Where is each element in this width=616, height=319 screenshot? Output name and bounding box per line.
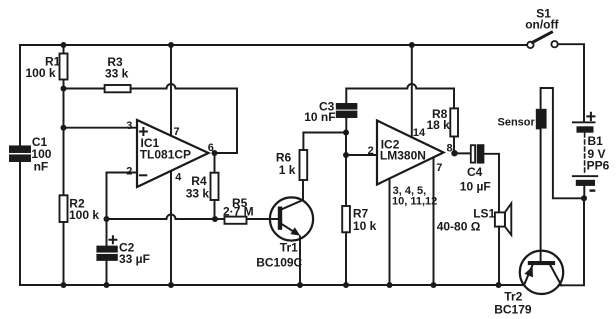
svg-text:33 k: 33 k (105, 67, 129, 81)
wire battery minus to Tr2 collector (559, 198, 584, 285)
wire C2 top lead (106, 219, 108, 247)
capacitor C1 (10, 146, 30, 161)
wire Tr1 collector to R6 (302, 180, 304, 201)
label IC2 ground pins (392, 185, 437, 207)
svg-text:33 k: 33 k (186, 187, 210, 201)
svg-text:2: 2 (126, 165, 132, 177)
svg-text:33 µF: 33 µF (119, 252, 150, 266)
label C1 value (31, 135, 51, 173)
node IC1 output (212, 150, 218, 156)
node R1/R3 junction (61, 86, 67, 92)
svg-text:LS1: LS1 (473, 206, 495, 220)
svg-text:10, 11,12: 10, 11,12 (392, 195, 437, 207)
wire R3 left lead (64, 88, 105, 90)
wire R4 bottom lead (214, 200, 216, 219)
node C3/R6 junction (343, 130, 349, 136)
svg-text:10 k: 10 k (353, 219, 377, 233)
wire R2 bottom lead (63, 222, 65, 285)
capacitor C3 (337, 104, 357, 117)
node pin4 ground (168, 282, 174, 288)
label IC2 (380, 137, 426, 162)
node LS1 ground (496, 282, 502, 288)
label IC1 minus input (140, 174, 146, 176)
wire left edge upper (19, 45, 21, 146)
svg-text:BC109C: BC109C (256, 256, 302, 270)
wire R5 left lead (215, 218, 225, 220)
label Tr2 (494, 289, 532, 316)
resistor R2 (60, 195, 68, 222)
svg-text:4: 4 (175, 171, 182, 183)
svg-text:B1: B1 (588, 134, 604, 148)
svg-text:1 k: 1 k (279, 163, 296, 177)
label C2 plus (109, 236, 116, 243)
node Tr1 emitter ground (297, 282, 303, 288)
label R3 (105, 55, 129, 80)
label Tr1 (256, 240, 302, 269)
resistor R4 (211, 173, 219, 200)
svg-text:18 k: 18 k (427, 118, 451, 132)
wire S1 to battery column (558, 44, 584, 121)
node R2 ground (61, 282, 67, 288)
wire C3 top lead (345, 89, 347, 105)
svg-text:3: 3 (126, 120, 132, 132)
wire Tr1 emitter to ground (299, 237, 301, 286)
resistor R3 (105, 85, 131, 92)
wire top rail (20, 44, 527, 46)
wire R1 top lead (63, 45, 65, 54)
label C3 (304, 99, 335, 124)
node battery minus junction (581, 195, 587, 201)
node C2 ground (104, 282, 110, 288)
node IC1 pin7 top (168, 42, 174, 48)
wire R4 top lead (214, 153, 216, 173)
svg-text:PP6: PP6 (587, 159, 610, 173)
resistor R7 (342, 206, 350, 232)
wire IC2 output to C4 (455, 152, 471, 154)
svg-text:7: 7 (174, 126, 180, 138)
wire IC2 pins 3,4,5,10,11,12 (389, 179, 391, 286)
op-amp IC2 (377, 121, 444, 185)
svg-text:nF: nF (34, 159, 49, 173)
wire feedback from R3 to IC1 output with hop (131, 84, 237, 153)
node C2 top junction (104, 216, 110, 222)
resistor R1 (60, 54, 68, 80)
wire bottom rail (20, 284, 524, 286)
svg-text:TL081CP: TL081CP (140, 148, 191, 162)
wire IC1 pin4 (170, 171, 172, 285)
node R1 top (61, 42, 67, 48)
svg-text:14: 14 (413, 127, 426, 139)
svg-text:C4: C4 (467, 165, 483, 179)
wire C4 to LS1 (483, 154, 499, 213)
svg-text:40-80 Ω: 40-80 Ω (437, 219, 481, 233)
svg-text:LM380N: LM380N (380, 149, 426, 163)
svg-text:100 k: 100 k (26, 66, 56, 80)
svg-text:100 k: 100 k (69, 208, 99, 222)
label LS1 (437, 206, 496, 233)
wire C3 junction down to pin2 node (345, 133, 347, 156)
label IC1 (140, 136, 191, 162)
node R7 ground (343, 282, 349, 288)
resistor R5 (225, 217, 247, 224)
node pins345 ground (387, 282, 393, 288)
switch S1 (527, 32, 558, 48)
label C4 (460, 165, 491, 193)
wire C2 bottom lead (106, 260, 108, 285)
svg-text:10 nF: 10 nF (304, 110, 335, 124)
sensor plates (537, 110, 546, 129)
node IC2 pin14 top (409, 42, 415, 48)
node IC2 pin2 junction (343, 152, 349, 158)
capacitor C2 (97, 247, 116, 260)
node R4/R5 junction (212, 216, 218, 222)
label IC1 plus input (140, 128, 147, 135)
wire left edge lower (19, 161, 21, 285)
svg-text:2: 2 (368, 145, 374, 157)
label battery minus (590, 189, 596, 191)
svg-text:7: 7 (436, 162, 442, 174)
wire IC2 pin7 (433, 157, 435, 285)
wire IC1 pin3 (64, 127, 138, 129)
wire C3 bottom lead (345, 117, 347, 133)
svg-text:on/off: on/off (525, 18, 559, 32)
sensor loop (541, 88, 584, 261)
transistor Tr2 (520, 251, 563, 294)
node pin3 junction (61, 125, 67, 131)
node IC2 output (451, 150, 457, 156)
wire R1 bottom lead (63, 80, 65, 89)
transistor Tr1 (270, 197, 313, 240)
capacitor C4 (471, 145, 484, 162)
label B1 value (587, 134, 610, 173)
svg-text:2·7 M: 2·7 M (223, 205, 254, 219)
wire R7 bottom lead (345, 232, 347, 285)
resistor R8 (450, 108, 458, 136)
wire C3 to R8 top with hop over pin14 wire (346, 84, 454, 89)
label R1 (26, 55, 61, 81)
wire IC1 pin2 (107, 173, 138, 220)
label R7 (353, 207, 377, 234)
label battery plus (587, 113, 594, 120)
wire IC2 pin14 (411, 45, 413, 137)
svg-text:10 µF: 10 µF (460, 179, 491, 193)
label R2 (69, 197, 99, 222)
wire R8 top lead (453, 89, 455, 109)
label S1 (525, 6, 559, 31)
node pin7 ground (431, 282, 437, 288)
battery B1 (572, 121, 598, 198)
wire LS1 bottom lead (498, 227, 500, 285)
wire R7 top lead (345, 155, 347, 206)
wire R6 top to C3 junction (303, 133, 346, 151)
label R6 (276, 151, 296, 177)
svg-text:Tr1: Tr1 (280, 240, 298, 254)
wire R5 to Tr1 base (247, 218, 278, 220)
wire R8 bottom lead (453, 137, 455, 154)
wire IC1 pin7 (170, 45, 172, 136)
op-amp IC1 (137, 120, 209, 187)
speaker LS1 (495, 203, 511, 235)
wire R1-R2 vertical (63, 89, 65, 196)
label R4 (186, 174, 210, 201)
label R8 (427, 107, 451, 132)
label C2 value (119, 241, 150, 266)
wire C2 row to R4/R5 with hop over pin4 wire (107, 215, 216, 220)
svg-text:BC179: BC179 (494, 303, 532, 317)
wire IC2 pin2 (346, 154, 377, 156)
svg-text:Tr2: Tr2 (504, 289, 522, 303)
label R5 (223, 196, 254, 219)
resistor R6 (300, 150, 308, 180)
svg-text:Sensor: Sensor (498, 116, 536, 128)
